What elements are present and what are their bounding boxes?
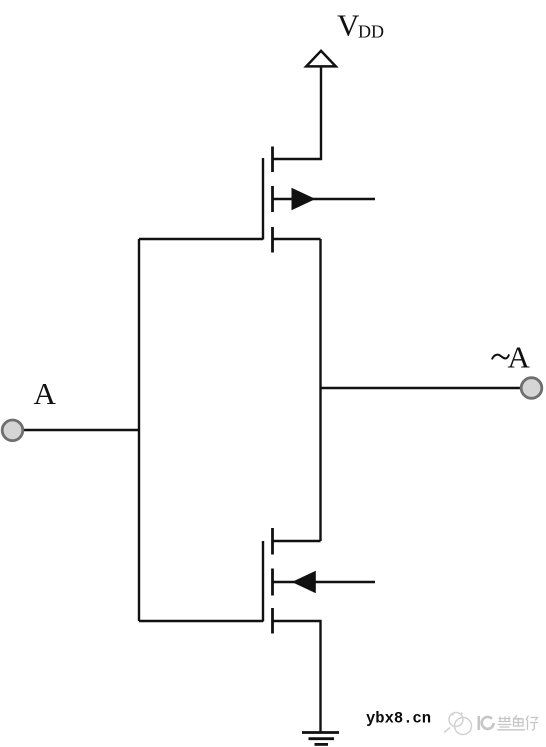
svg-text:DD: DD <box>358 22 384 42</box>
svg-text:V: V <box>337 7 360 42</box>
svg-text:A: A <box>34 376 57 411</box>
svg-text:ybx8.cn: ybx8.cn <box>366 710 431 728</box>
svg-text:A: A <box>508 340 531 375</box>
